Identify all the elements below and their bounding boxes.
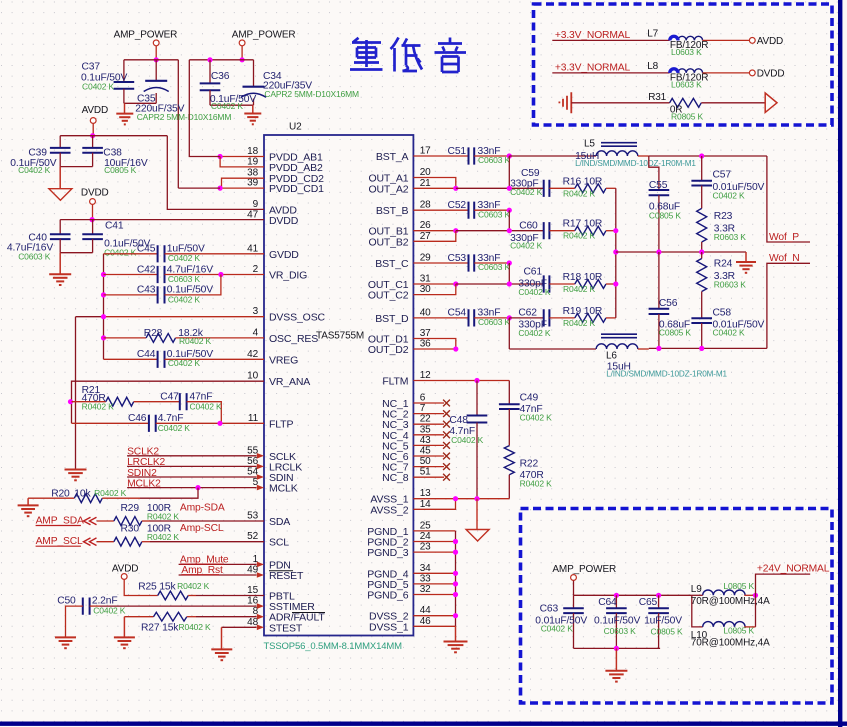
svg-text:OUT_C2: OUT_C2	[368, 290, 409, 302]
svg-text:VR_DIG: VR_DIG	[269, 270, 307, 282]
svg-text:C0402 K: C0402 K	[82, 82, 115, 92]
svg-text:C64: C64	[598, 597, 617, 608]
svg-text:51: 51	[420, 467, 431, 478]
svg-text:32: 32	[420, 584, 431, 595]
svg-text:GVDD: GVDD	[269, 249, 299, 261]
svg-text:9: 9	[253, 199, 259, 210]
svg-text:C0402 K: C0402 K	[18, 165, 51, 175]
svg-text:C0402 K: C0402 K	[190, 401, 223, 411]
svg-text:20: 20	[420, 167, 431, 178]
svg-text:AMP_POWER: AMP_POWER	[114, 30, 178, 41]
svg-text:70R@100MHz,4A: 70R@100MHz,4A	[691, 596, 770, 607]
svg-text:70R@100MHz,4A: 70R@100MHz,4A	[691, 638, 770, 649]
svg-text:L/IND/SMD/MMD-10DZ-1R0M-M1: L/IND/SMD/MMD-10DZ-1R0M-M1	[606, 369, 727, 378]
svg-text:C0805 K: C0805 K	[649, 210, 682, 220]
svg-text:Wof_N: Wof_N	[769, 253, 800, 264]
svg-text:50: 50	[420, 456, 431, 467]
svg-text:BST_A: BST_A	[376, 151, 409, 163]
svg-text:23: 23	[420, 542, 431, 553]
svg-text:BST_B: BST_B	[376, 205, 409, 217]
svg-text:C44: C44	[137, 349, 156, 360]
svg-text:R31: R31	[648, 92, 666, 103]
svg-text:R30: R30	[121, 524, 140, 535]
svg-text:C0603 K: C0603 K	[168, 274, 201, 284]
svg-text:29: 29	[420, 253, 431, 264]
svg-text:C0402 K: C0402 K	[713, 328, 746, 338]
svg-text:C0603 K: C0603 K	[478, 209, 511, 219]
svg-text:AMP_SDA: AMP_SDA	[36, 516, 84, 527]
svg-text:+3.3V_NORMAL: +3.3V_NORMAL	[555, 63, 631, 74]
svg-text:C45: C45	[137, 244, 156, 255]
svg-text:R20: R20	[51, 488, 70, 499]
svg-text:R0402 K: R0402 K	[563, 188, 596, 198]
svg-text:AVDD: AVDD	[112, 564, 138, 575]
svg-text:24: 24	[420, 531, 431, 542]
svg-text:C0402 K: C0402 K	[518, 287, 551, 297]
svg-text:FLTM: FLTM	[382, 376, 408, 388]
svg-text:R24: R24	[714, 258, 733, 269]
svg-text:R23: R23	[714, 211, 733, 222]
svg-text:C38: C38	[103, 147, 122, 158]
svg-text:C0805 K: C0805 K	[651, 626, 684, 636]
svg-text:18: 18	[247, 146, 258, 157]
svg-text:45: 45	[420, 446, 431, 457]
svg-text:C0402 K: C0402 K	[510, 241, 543, 251]
svg-text:31: 31	[420, 274, 431, 285]
svg-text:C42: C42	[137, 264, 156, 275]
svg-text:PGND_6: PGND_6	[367, 590, 408, 602]
svg-text:L0603 K: L0603 K	[671, 47, 702, 57]
svg-text:DVDD: DVDD	[269, 215, 299, 227]
svg-text:U2: U2	[289, 122, 302, 133]
svg-text:22: 22	[420, 414, 431, 425]
svg-text:DVDD: DVDD	[81, 188, 109, 199]
svg-text:10k: 10k	[74, 488, 91, 499]
svg-text:R0603 K: R0603 K	[714, 280, 747, 290]
svg-text:R0402 K: R0402 K	[179, 336, 212, 346]
svg-text:L6: L6	[606, 351, 617, 362]
svg-text:C0603 K: C0603 K	[604, 626, 637, 636]
svg-text:21: 21	[420, 178, 431, 189]
svg-text:C39: C39	[28, 147, 47, 158]
svg-text:R0402 K: R0402 K	[520, 478, 553, 488]
svg-text:47: 47	[247, 210, 258, 221]
svg-text:C0805 K: C0805 K	[659, 328, 692, 338]
svg-text:Amp-SCL: Amp-SCL	[180, 523, 224, 534]
svg-text:C55: C55	[649, 180, 668, 191]
svg-text:C0402 K: C0402 K	[520, 413, 553, 423]
svg-text:+3.3V_NORMAL: +3.3V_NORMAL	[555, 30, 631, 41]
svg-text:28: 28	[420, 200, 431, 211]
svg-text:BST_C: BST_C	[375, 258, 409, 270]
svg-text:R0402 K: R0402 K	[563, 318, 596, 328]
svg-text:C65: C65	[639, 597, 658, 608]
svg-text:C0402 K: C0402 K	[93, 605, 126, 615]
svg-text:44: 44	[420, 605, 431, 616]
svg-text:PVDD_AB2: PVDD_AB2	[269, 162, 323, 174]
svg-text:OUT_A2: OUT_A2	[368, 183, 408, 195]
svg-text:PVDD_CD1: PVDD_CD1	[269, 183, 324, 195]
svg-text:C0603 K: C0603 K	[478, 155, 511, 165]
svg-text:R0402 K: R0402 K	[563, 284, 596, 294]
svg-text:Amp-SDA: Amp-SDA	[180, 503, 225, 514]
svg-text:R18 10R: R18 10R	[563, 272, 603, 283]
svg-text:17: 17	[420, 146, 431, 157]
svg-text:VR_ANA: VR_ANA	[269, 376, 310, 388]
svg-text:DVSS_OSC: DVSS_OSC	[269, 312, 326, 324]
svg-text:15: 15	[247, 585, 258, 596]
svg-text:C52: C52	[448, 200, 467, 211]
svg-text:C60: C60	[519, 221, 538, 232]
svg-text:C0402 K: C0402 K	[510, 187, 543, 197]
svg-text:C47: C47	[160, 392, 179, 403]
svg-text:52: 52	[247, 531, 258, 542]
svg-text:C0402 K: C0402 K	[451, 435, 484, 445]
svg-text:NC_8: NC_8	[382, 472, 409, 484]
svg-text:R19 10R: R19 10R	[563, 306, 603, 317]
svg-text:SCL: SCL	[269, 537, 289, 549]
svg-text:AMP_SCL: AMP_SCL	[36, 536, 83, 547]
svg-text:C50: C50	[57, 596, 76, 607]
svg-text:STEST: STEST	[269, 622, 303, 634]
svg-text:C54: C54	[448, 308, 467, 319]
svg-text:43: 43	[420, 435, 431, 446]
svg-text:C0402 K: C0402 K	[168, 253, 201, 263]
svg-text:27: 27	[420, 231, 431, 242]
svg-text:12: 12	[420, 370, 431, 381]
svg-text:AMP_POWER: AMP_POWER	[232, 30, 296, 41]
svg-text:C46: C46	[128, 413, 147, 424]
svg-text:C58: C58	[713, 307, 732, 318]
svg-text:R0402 K: R0402 K	[147, 512, 180, 522]
svg-text:R0402 K: R0402 K	[563, 231, 596, 241]
svg-text:DVSS_1: DVSS_1	[369, 621, 409, 633]
svg-text:C43: C43	[137, 285, 156, 296]
svg-text:19: 19	[247, 156, 258, 167]
svg-text:C56: C56	[659, 298, 678, 309]
svg-text:C37: C37	[82, 62, 101, 73]
svg-text:4: 4	[253, 327, 259, 338]
svg-text:AVDD: AVDD	[757, 36, 783, 47]
svg-text:11: 11	[248, 413, 259, 424]
svg-text:C0402 K: C0402 K	[211, 101, 244, 111]
svg-text:13: 13	[420, 488, 431, 499]
svg-text:46: 46	[420, 616, 431, 627]
svg-text:40: 40	[420, 307, 431, 318]
svg-text:C0402 K: C0402 K	[713, 190, 746, 200]
svg-text:1uF/50V: 1uF/50V	[644, 615, 682, 626]
svg-text:RESET: RESET	[269, 570, 304, 582]
svg-text:PGND_3: PGND_3	[367, 547, 408, 559]
svg-text:SDA: SDA	[269, 516, 290, 528]
svg-text:L/IND/SMD/MMD-10DZ-1R0M-M1: L/IND/SMD/MMD-10DZ-1R0M-M1	[575, 159, 696, 168]
svg-text:L9: L9	[691, 584, 702, 595]
svg-text:R22: R22	[520, 459, 539, 470]
svg-text:R0603 K: R0603 K	[714, 232, 747, 242]
svg-text:TSSOP56_0.5MM-8.1MMX14MM: TSSOP56_0.5MM-8.1MMX14MM	[264, 641, 403, 652]
svg-text:OSC_RES: OSC_RES	[269, 333, 318, 345]
svg-text:C0402 K: C0402 K	[541, 623, 574, 633]
svg-text:CAPR2 5MM-D10X16MM: CAPR2 5MM-D10X16MM	[137, 112, 232, 122]
svg-text:0.1uF/50V: 0.1uF/50V	[594, 615, 640, 626]
svg-text:L8: L8	[647, 61, 658, 72]
svg-text:R27 15k: R27 15k	[141, 622, 179, 633]
svg-text:30: 30	[420, 284, 431, 295]
svg-text:C59: C59	[521, 168, 540, 179]
svg-text:C36: C36	[211, 71, 230, 82]
svg-text:34: 34	[420, 563, 431, 574]
svg-text:OUT_D2: OUT_D2	[368, 344, 409, 356]
svg-text:R17 10R: R17 10R	[563, 219, 603, 230]
svg-text:C0603 K: C0603 K	[478, 262, 511, 272]
svg-text:25: 25	[420, 520, 431, 531]
svg-text:36: 36	[420, 339, 431, 350]
svg-text:C57: C57	[713, 169, 732, 180]
svg-text:L0603 K: L0603 K	[671, 80, 702, 90]
svg-text:C0603 K: C0603 K	[478, 317, 511, 327]
svg-text:C0402 K: C0402 K	[518, 328, 551, 338]
svg-text:33: 33	[420, 573, 431, 584]
svg-text:BST_D: BST_D	[375, 313, 409, 325]
svg-text:C0402 K: C0402 K	[104, 247, 137, 257]
svg-text:10: 10	[247, 371, 258, 382]
svg-text:R0805 K: R0805 K	[671, 111, 704, 121]
svg-text:C0805 K: C0805 K	[104, 165, 137, 175]
svg-text:R25 15k: R25 15k	[138, 582, 176, 593]
svg-text:AVDD: AVDD	[82, 105, 108, 116]
svg-text:L7: L7	[647, 28, 658, 39]
svg-text:+24V_NORMAL: +24V_NORMAL	[757, 564, 830, 575]
svg-text:C49: C49	[520, 393, 539, 404]
svg-text:R0402 K: R0402 K	[82, 401, 115, 411]
svg-text:L0805 K: L0805 K	[723, 626, 754, 636]
svg-text:37: 37	[420, 328, 431, 339]
svg-text:R28: R28	[144, 328, 163, 339]
svg-text:42: 42	[247, 349, 258, 360]
svg-text:R16 10R: R16 10R	[563, 176, 603, 187]
svg-text:C41: C41	[105, 220, 124, 231]
svg-text:R0402 K: R0402 K	[147, 532, 180, 542]
svg-text:C0402 K: C0402 K	[168, 294, 201, 304]
svg-text:41: 41	[247, 243, 258, 254]
svg-text:26: 26	[420, 220, 431, 231]
svg-text:MCLK: MCLK	[269, 483, 298, 495]
svg-text:C0402 K: C0402 K	[158, 423, 191, 433]
svg-text:FLTP: FLTP	[269, 418, 293, 430]
svg-text:3: 3	[253, 306, 259, 317]
svg-text:AVSS_2: AVSS_2	[370, 504, 408, 516]
svg-text:L0805 K: L0805 K	[723, 581, 754, 591]
svg-text:CAPR2 5MM-D10X16MM: CAPR2 5MM-D10X16MM	[264, 89, 359, 99]
svg-text:2: 2	[253, 264, 259, 275]
svg-text:39: 39	[247, 178, 258, 189]
svg-text:C48: C48	[449, 415, 468, 426]
svg-text:AMP_POWER: AMP_POWER	[552, 564, 616, 575]
svg-text:14: 14	[420, 499, 431, 510]
svg-text:L5: L5	[584, 139, 595, 150]
svg-text:35: 35	[420, 424, 431, 435]
svg-text:53: 53	[247, 511, 258, 522]
svg-text:C63: C63	[540, 604, 559, 615]
svg-text:C53: C53	[448, 253, 467, 264]
svg-text:C61: C61	[524, 267, 543, 278]
svg-text:C0603 K: C0603 K	[18, 252, 51, 262]
svg-text:7: 7	[420, 403, 426, 414]
svg-text:6: 6	[420, 393, 426, 404]
svg-text:R29: R29	[121, 503, 140, 514]
svg-text:Wof_P: Wof_P	[769, 232, 799, 243]
svg-text:C51: C51	[448, 146, 467, 157]
svg-text:C0402 K: C0402 K	[168, 358, 201, 368]
svg-text:R0402 K: R0402 K	[179, 622, 212, 632]
svg-text:R0402 K: R0402 K	[94, 488, 127, 498]
svg-text:C62: C62	[518, 307, 537, 318]
svg-text:DVDD: DVDD	[757, 69, 785, 80]
svg-text:R0402 K: R0402 K	[177, 581, 210, 591]
svg-text:OUT_B2: OUT_B2	[368, 236, 408, 248]
svg-text:VREG: VREG	[269, 354, 298, 366]
svg-text:TAS5755M: TAS5755M	[316, 331, 364, 342]
